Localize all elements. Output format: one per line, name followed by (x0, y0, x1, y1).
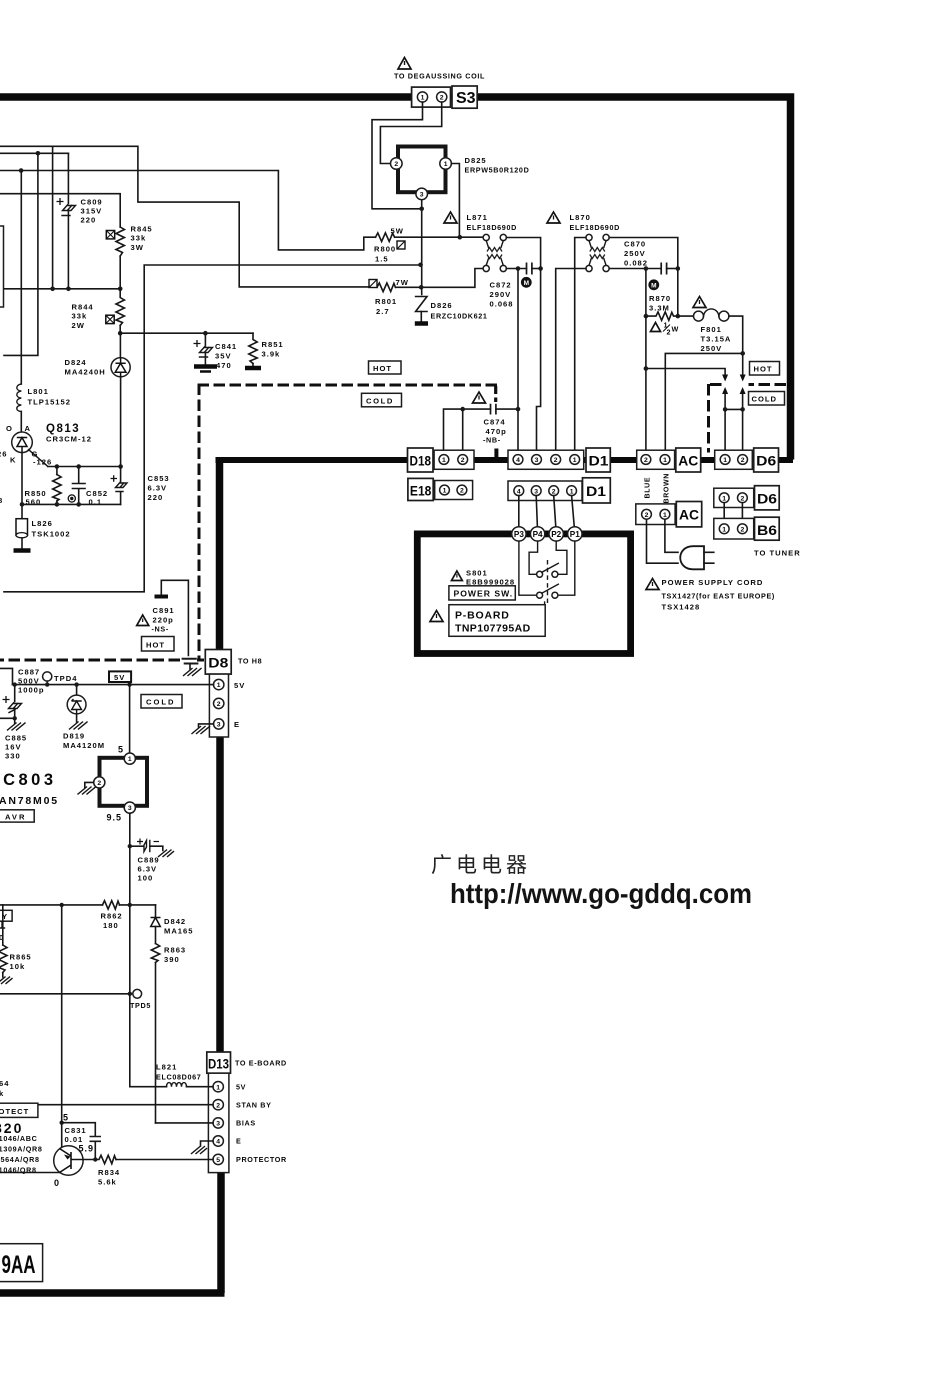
svg-text:1: 1 (217, 682, 221, 689)
svg-text:5V: 5V (236, 1083, 246, 1092)
node C874/D18 pin2 (460, 407, 465, 412)
D8 pin 2 (214, 698, 224, 708)
svg-text:2W: 2W (72, 321, 85, 330)
connector D1 row2 label box (583, 478, 611, 503)
connector AC row1 label box (676, 448, 701, 472)
E18 pin 2 (457, 485, 467, 495)
wire D825 pin3 down to D826 (421, 200, 423, 295)
node gate/C853 (118, 464, 123, 469)
svg-text:1: 1 (573, 457, 577, 464)
wire vertical x=52.6 (52, 146, 54, 288)
svg-text:5: 5 (63, 1113, 69, 1123)
component box fragment at left edge (0, 226, 4, 307)
P-board pin P1 (568, 527, 582, 541)
svg-text:S3: S3 (456, 90, 476, 107)
node fuse output (740, 351, 745, 356)
A-board outline top and right edge (thick) (0, 97, 791, 460)
svg-text:TO E-BOARD: TO E-BOARD (235, 1059, 287, 1068)
svg-text:0.082: 0.082 (624, 259, 648, 268)
S3 pin 2 (437, 92, 447, 102)
wire P1 to switch lower-right contact (558, 541, 575, 595)
svg-text:C889: C889 (138, 856, 160, 865)
connector D1 row2 pin strip (508, 481, 582, 501)
resistor R865 (2, 905, 4, 945)
svg-text:10k: 10k (10, 962, 26, 971)
svg-text:PROTECT: PROTECT (0, 1107, 29, 1116)
wire top-left bus 1 (0, 152, 68, 154)
node row2 x=22 (20, 502, 25, 507)
node base/C831 (93, 1157, 97, 1161)
svg-text:D6: D6 (757, 492, 778, 507)
capacitor C870 (661, 263, 666, 275)
svg-text:1: 1 (443, 488, 447, 495)
junction row wire (4, 288, 120, 290)
label box board name 9AA fragment (0, 1244, 43, 1282)
svg-text:B6: B6 (757, 523, 778, 538)
svg-text:TLP15152: TLP15152 (28, 398, 71, 407)
svg-text:R844: R844 (72, 303, 94, 312)
AC pin 2 (641, 455, 651, 465)
node R844/C841 bus (118, 331, 123, 336)
svg-text:33k: 33k (131, 234, 147, 243)
connector D13 label box (207, 1052, 231, 1073)
warning triangle F801 (693, 297, 706, 308)
wire P4 to switch upper-left contact (529, 541, 538, 574)
svg-text:ELF18D690D: ELF18D690D (467, 223, 517, 232)
cold-side arrow D6 pin1 (724, 392, 726, 409)
svg-text:AN78M05: AN78M05 (0, 795, 59, 807)
svg-text:F801: F801 (701, 325, 722, 334)
svg-text:-NS-: -NS- (152, 625, 169, 634)
D6 pin 2 (738, 455, 748, 465)
ground bar D826 (415, 321, 428, 326)
B6 pin 1 (719, 524, 729, 534)
svg-text:9.5: 9.5 (107, 813, 123, 823)
svg-text:2: 2 (741, 457, 745, 464)
label COLD (middle) (362, 393, 402, 407)
warning triangle C874 (473, 392, 486, 403)
svg-text:290V: 290V (490, 290, 512, 299)
capacitor C891 (182, 659, 199, 664)
node cold link left (723, 407, 728, 412)
svg-text:ERZC10DK621: ERZC10DK621 (431, 312, 488, 321)
svg-text:5W: 5W (391, 227, 404, 236)
wire D1 pin4 vertical with C874 node (517, 269, 519, 456)
svg-text:3: 3 (217, 722, 221, 729)
svg-text:8: 8 (0, 496, 3, 505)
connector D6 row2 label box (755, 486, 780, 510)
svg-text:AVR: AVR (5, 813, 26, 822)
surge absorber D826 (Z symbol) (416, 297, 427, 312)
connector AC row1 pin strip (637, 450, 675, 469)
svg-text:1: 1 (663, 512, 667, 519)
AC row2 pin 2 (642, 509, 652, 519)
svg-text:3: 3 (534, 488, 538, 495)
svg-text:Q813: Q813 (46, 423, 80, 435)
svg-text:1: 1 (216, 1084, 220, 1091)
IC803 pin 1 (124, 753, 135, 764)
svg-text:315V: 315V (81, 207, 103, 216)
wire fuse output to AC pin1 (665, 353, 742, 455)
D1 pin 1 (570, 455, 580, 465)
svg-text:5: 5 (118, 745, 124, 755)
node row2 R850 (55, 502, 60, 507)
resistor R850 (56, 467, 58, 475)
wires D1 row2 pins down to P-board pins (519, 496, 575, 527)
svg-text:O: O (6, 424, 13, 433)
label box POWER SW. (449, 586, 515, 600)
svg-text:64: 64 (0, 1079, 9, 1088)
label box AVR (0, 810, 34, 822)
node C874/D1 pin4 (516, 407, 521, 412)
warning triangle P-board (430, 611, 443, 622)
svg-text:IC803: IC803 (0, 771, 57, 789)
svg-text:D824: D824 (65, 358, 87, 367)
label COLD (left) (141, 695, 182, 709)
D13 pin 4 (213, 1136, 223, 1146)
svg-text:COLD: COLD (752, 395, 778, 404)
node row x=120 (118, 287, 123, 292)
svg-text:C885: C885 (5, 734, 27, 743)
svg-text:C874: C874 (484, 418, 506, 427)
connector D8 pin strip (209, 674, 228, 737)
svg-text:180: 180 (103, 921, 119, 930)
D1 row2 pin 1 (567, 486, 577, 496)
svg-text:D13: D13 (208, 1057, 229, 1072)
svg-text:1: 1 (722, 526, 726, 533)
D1 row2 pin 2 (549, 486, 559, 496)
D13 pin 1 (213, 1082, 223, 1092)
flameproof symbol R844 (106, 315, 114, 323)
svg-text:PROTECTOR: PROTECTOR (236, 1155, 287, 1164)
svg-text:E: E (234, 720, 240, 729)
svg-text:500V: 500V (18, 677, 40, 686)
svg-text:2: 2 (461, 457, 465, 464)
svg-text:STAN BY: STAN BY (236, 1101, 272, 1110)
svg-text:D819: D819 (63, 732, 85, 741)
wire 5V rail down to IC803 pin1 (129, 685, 131, 754)
D13 pin 5 (213, 1154, 223, 1164)
flameproof symbol R801 (369, 280, 377, 288)
wire AC row2 pin1 to plug (665, 519, 678, 552)
wire S3 pin1 to D825 pin3 node (372, 102, 423, 209)
svg-text:P-BOARD: P-BOARD (455, 610, 510, 622)
connector D6 row1 label box (754, 448, 779, 472)
wire C809 to junction row (67, 212, 69, 289)
svg-text:2: 2 (97, 780, 101, 787)
svg-text:330: 330 (5, 752, 21, 761)
cold-side link wire and drops to D6 (725, 409, 743, 455)
transistor emitter wire to left (0, 1172, 60, 1174)
node row2 C852 (76, 502, 81, 507)
svg-text:564A/QR8: 564A/QR8 (1, 1155, 40, 1164)
wire D825 pin1 to line filter node (452, 164, 460, 238)
svg-text:D842: D842 (164, 917, 186, 926)
svg-text:1: 1 (444, 161, 448, 168)
svg-text:1: 1 (723, 457, 727, 464)
IC803 pin2 wire to ground (85, 782, 94, 787)
regulator IC803 body (thick box) (100, 758, 148, 806)
svg-text:K: K (10, 456, 16, 465)
svg-text:2: 2 (394, 161, 398, 168)
node D825 pin3 line / R801 wire (419, 285, 424, 290)
D6 row2 pin 2 (738, 493, 748, 503)
svg-text:390: 390 (164, 955, 180, 964)
node C870 right (676, 266, 681, 271)
wire L871 bottom-right to C872 left (506, 268, 526, 270)
svg-text:3.9k: 3.9k (262, 350, 281, 359)
line filter L870 (586, 234, 609, 271)
svg-text:HOT: HOT (146, 641, 165, 650)
wire C891 to ground (189, 664, 191, 670)
node C841 (203, 331, 208, 336)
connector B6 label box (755, 517, 780, 540)
node C885 (13, 682, 17, 686)
wire D1 pin3 vertical from C872 (537, 269, 541, 456)
svg-text:D826: D826 (431, 301, 453, 310)
svg-text:TPD5: TPD5 (130, 1001, 151, 1010)
S3 pin 1 (417, 92, 427, 102)
A-board left edge (thick) below D13 and bottom edge (0, 1172, 225, 1293)
D8 pin 1 (214, 679, 224, 689)
AC row2 pin 1 (660, 509, 670, 519)
diode D824 (111, 358, 130, 377)
svg-text:16V: 16V (5, 743, 22, 752)
HOT/COLD barrier dashed line, main horizontal and vertical (0, 384, 497, 661)
P-board pin P2 (549, 527, 563, 541)
flameproof symbol R800 (397, 241, 405, 249)
node row x=52.6 (50, 287, 55, 292)
safety mark (circled M) C872 (521, 277, 532, 288)
svg-text:D8: D8 (208, 656, 229, 671)
svg-text:3: 3 (420, 192, 424, 199)
svg-text:R863: R863 (164, 946, 186, 955)
svg-text:35V: 35V (215, 352, 232, 361)
HOT/COLD barrier dashed line, right section near power input (709, 384, 787, 453)
line filter L871 (483, 234, 506, 271)
svg-text:2.7: 2.7 (376, 307, 390, 316)
svg-text:5.9: 5.9 (79, 1144, 95, 1154)
fragment component below Y (0, 921, 5, 928)
svg-text:COLD: COLD (146, 698, 176, 707)
svg-text:220p: 220p (153, 616, 174, 625)
wire L826 to ground (21, 538, 23, 548)
resistor R801 (377, 283, 396, 292)
svg-text:D1: D1 (586, 484, 607, 499)
svg-text:BLUE: BLUE (645, 477, 652, 499)
svg-text:L871: L871 (467, 213, 488, 222)
svg-text:TSK1002: TSK1002 (32, 530, 71, 539)
wire vertical x=68.4 to C809 (67, 153, 69, 203)
wire AC pin2 branch to barrier arrow (646, 369, 725, 377)
switch linkage dashed (547, 560, 549, 605)
svg-text:BIAS: BIAS (236, 1119, 256, 1128)
svg-text:250V: 250V (701, 344, 723, 353)
AC pin 1 (660, 455, 670, 465)
connector S3 label box (452, 86, 477, 108)
ground hatch C891 (184, 669, 202, 676)
A-board left edge (thick) from connector row to D8 (216, 457, 224, 650)
svg-text:TO DEGAUSSING COIL: TO DEGAUSSING COIL (394, 72, 485, 81)
wire long return from D825-pin3 bus to left board (4, 265, 420, 592)
connector D8 label box (205, 650, 231, 675)
wire stair from left board to R800 (0, 171, 376, 250)
capacitor C853 (electrolytic) (116, 482, 128, 491)
D1 row2 pin 4 (514, 486, 524, 496)
connector S3 pin strip (412, 87, 451, 107)
svg-text:HOT: HOT (373, 364, 392, 373)
svg-text:TSX1427(for EAST EUROPE): TSX1427(for EAST EUROPE) (662, 592, 775, 601)
wire R870 left vertical down to AC pin2 (645, 269, 647, 456)
svg-text:5: 5 (216, 1157, 220, 1164)
svg-text:E: E (236, 1137, 241, 1146)
svg-text:TSX1428: TSX1428 (662, 603, 701, 612)
svg-text:R851: R851 (262, 340, 284, 349)
polarity mark C852 (68, 495, 75, 502)
resistor R851 (249, 333, 257, 363)
svg-text:M: M (651, 283, 656, 290)
ground hatch D819 (76, 714, 78, 722)
svg-text:D6: D6 (756, 454, 777, 469)
svg-text:E18: E18 (410, 484, 432, 499)
svg-text:5.6k: 5.6k (98, 1178, 117, 1187)
connector D6 row2 pin strip (714, 488, 754, 507)
svg-text:C872: C872 (490, 281, 512, 290)
svg-text:1: 1 (722, 495, 726, 502)
warning triangle (degaussing) (398, 58, 411, 70)
IC803 pin 3 (124, 802, 135, 813)
svg-text:POWER SUPPLY CORD: POWER SUPPLY CORD (662, 578, 764, 587)
svg-text:1000p: 1000p (18, 686, 45, 695)
warning triangle C891 (137, 615, 149, 626)
svg-text:4: 4 (216, 1139, 220, 1146)
svg-text:MA4240H: MA4240H (65, 368, 106, 377)
svg-text:1: 1 (421, 95, 425, 102)
terminal bar near C891 (155, 595, 169, 599)
choke L826 (cylinder) (16, 519, 28, 536)
wire R862 to IC803 pin3 node and D842 (120, 904, 156, 906)
svg-text:0.068: 0.068 (490, 300, 514, 309)
ground hatch R865 (2, 973, 4, 978)
D6 pin 1 (720, 455, 730, 465)
svg-text:R870: R870 (649, 294, 671, 303)
svg-text:26: 26 (0, 450, 7, 459)
node row x=68.4 (66, 287, 71, 292)
capacitor C889 (electrolytic) (130, 845, 144, 847)
warning triangle L871 (444, 212, 457, 223)
svg-text:POWER SW.: POWER SW. (454, 589, 514, 599)
svg-text:9AA: 9AA (2, 1251, 36, 1279)
label COLD (right) (749, 392, 785, 406)
label box PROTECT fragment (0, 1103, 38, 1117)
wire vertical x=21 to L801 (20, 171, 22, 385)
capacitor C874 (491, 404, 496, 415)
svg-text:2: 2 (440, 95, 444, 102)
svg-text:TO H8: TO H8 (238, 657, 262, 666)
D8 pin 3 (214, 719, 224, 729)
D13 pin 2 (213, 1100, 223, 1110)
resistor R845 (116, 227, 124, 256)
cold-side arrow D6 pin2 (742, 392, 744, 409)
svg-text:AC: AC (678, 454, 698, 469)
svg-text:L870: L870 (570, 213, 591, 222)
resistor R870 (646, 312, 678, 320)
svg-text:广电电器: 广电电器 (431, 853, 531, 877)
Q813 gate lead (29, 450, 48, 467)
label box 5V (109, 671, 131, 682)
D1 pin 2 (551, 455, 561, 465)
inductor L821 (130, 1086, 167, 1088)
svg-text:AN1046/ABC: AN1046/ABC (0, 1134, 37, 1143)
svg-text:C809: C809 (81, 198, 103, 207)
svg-text:TO TUNER: TO TUNER (754, 549, 801, 558)
svg-text:R865: R865 (10, 953, 32, 962)
svg-text:C887: C887 (18, 668, 40, 677)
node C831 top (60, 1121, 64, 1125)
svg-text:2: 2 (216, 1102, 220, 1109)
D18 pin 2 (458, 455, 468, 465)
wire stair from left board to R801 (0, 146, 377, 287)
svg-text:P2: P2 (551, 530, 561, 539)
resistor R800 (376, 233, 395, 242)
capacitor C831 (90, 1137, 102, 1142)
resistor R834 (95, 1155, 116, 1163)
svg-text:P1: P1 (570, 530, 580, 539)
svg-text:2: 2 (645, 512, 649, 519)
label box Y (relay fragment) (0, 910, 12, 921)
wire R845 to junction row (119, 256, 121, 289)
test point rail TPD5 (0, 993, 133, 995)
node 5V rail to IC803 (127, 682, 131, 686)
connector E18 label box (408, 478, 433, 500)
chassis tick below C874 (494, 449, 498, 460)
D18 pin 1 (439, 455, 449, 465)
transistor Q820 (54, 1146, 83, 1175)
svg-text:D18: D18 (410, 454, 432, 469)
svg-text:1.5: 1.5 (375, 255, 389, 264)
wire R800 to L871 (395, 236, 483, 238)
node on bus 1 (36, 151, 41, 156)
connector E18 pin strip (435, 481, 473, 500)
capacitor C852 (73, 467, 86, 505)
B6 pin 2 (738, 524, 748, 534)
ground hatch C885 (14, 718, 16, 723)
wire terminal to C891 (161, 580, 188, 655)
svg-text:C831: C831 (65, 1126, 87, 1135)
wire L871 top-right to C872 right (506, 238, 540, 269)
cathode bottom row (22, 503, 121, 505)
node TPD5/IC803 pin3 (128, 992, 132, 996)
wire R834 to D13 pin5 (116, 1159, 213, 1161)
wire S3 pin2 to D825 pin2 (380, 102, 441, 163)
svg-text:CR3CM-12: CR3CM-12 (46, 435, 92, 444)
flameproof symbol R845 (106, 231, 114, 239)
svg-text:0.1: 0.1 (89, 498, 103, 507)
node C870 left / R870 left (644, 266, 649, 271)
wire L870 top-right to C870 right (609, 238, 678, 269)
wire P3 to switch lower-left contact (519, 541, 537, 595)
svg-text:C853: C853 (148, 474, 170, 483)
warning triangle + label 1/2W (651, 323, 661, 332)
wire C874 bus with drops to D18 pins (444, 409, 519, 455)
diode D842 (155, 905, 157, 917)
node C889 (128, 844, 132, 848)
node D819 (74, 682, 78, 686)
svg-text:TPD4: TPD4 (54, 674, 77, 683)
svg-text:BROWN: BROWN (664, 473, 671, 503)
wire L870 bottom-right to C870 left (609, 268, 661, 270)
wire vertical x=38 with left jog (4, 153, 38, 355)
